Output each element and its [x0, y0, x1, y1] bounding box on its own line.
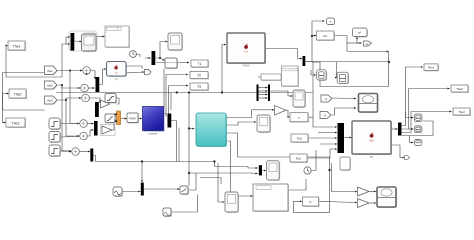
blue subsystem block — [143, 107, 165, 136]
scope 257 — [257, 115, 271, 133]
wire sum2 to mux1 — [89, 87, 95, 89]
svg-text:The3: The3 — [12, 121, 20, 125]
wire sum4 to mux3 — [88, 123, 94, 125]
step source 1 — [49, 118, 61, 130]
wire vertical bus x62 — [62, 85, 71, 152]
mux bar TL — [71, 33, 75, 51]
block The2 right — [451, 85, 469, 93]
from tag the2 — [45, 81, 59, 90]
block Ru2 — [290, 154, 308, 163]
wire x329 down U to const0 — [294, 170, 330, 213]
wire muxTL to scope1 — [75, 40, 82, 43]
wire vertical x164 down — [164, 69, 167, 114]
wire sine to muxBL — [123, 191, 141, 193]
from tag xy1 — [321, 95, 332, 102]
scope B1 — [267, 161, 281, 181]
mux bar 3 — [94, 121, 98, 136]
svg-text:w: w — [330, 21, 332, 24]
wire gain1 to xyB — [370, 191, 376, 193]
block The3 right — [453, 108, 471, 116]
small block 340 — [340, 157, 351, 171]
wire cyan input — [189, 128, 194, 130]
powergui block — [105, 26, 130, 48]
PMSM machine block — [227, 33, 266, 68]
wire mux167 out — [171, 121, 176, 128]
wire left loop to Theta1 — [6, 46, 62, 78]
XY graph top — [359, 94, 379, 114]
cyan subsystem block — [196, 113, 227, 147]
wire PMSM out right — [266, 49, 303, 59]
wire muxR to bigR — [345, 137, 352, 139]
wire mux1 out — [99, 69, 106, 85]
icon block R1 — [414, 114, 422, 122]
display block 261 — [261, 74, 282, 81]
gain triangle 2 boxed — [101, 125, 116, 136]
gain B2 — [358, 199, 370, 208]
saturation block 1 — [105, 94, 117, 104]
block Theta2 display left — [9, 89, 27, 99]
wire y51 long — [347, 51, 389, 53]
wire x189 vertical — [188, 93, 190, 187]
wire left to Theta2 — [3, 94, 9, 111]
wire step1 to sum4 — [60, 123, 79, 125]
scope B2 — [225, 192, 239, 213]
wire to w1 block — [312, 35, 316, 37]
wire demuxR bottom loop — [402, 121, 433, 136]
wire muxT input — [145, 57, 151, 59]
wire demuxB out to scope3 — [271, 91, 293, 96]
mux bar 2 — [95, 102, 99, 117]
demuxB bar right — [268, 85, 270, 102]
constant 0 block — [303, 197, 320, 207]
wire demuxB lines — [259, 87, 268, 89]
sum circle 2 — [81, 84, 89, 92]
wire blk163 out — [172, 195, 198, 213]
mux R thick — [338, 123, 345, 153]
wire from tag the1 to sum1 — [58, 70, 82, 72]
wire vertical bus x66 — [66, 100, 79, 136]
goto w tag — [327, 18, 336, 25]
wire PMSM input — [222, 45, 226, 93]
wire bigR to tag a — [392, 145, 405, 158]
sine source block — [113, 187, 123, 197]
wire run y173 — [189, 172, 258, 175]
wire fB out2 — [126, 72, 144, 73]
wire cyan out1 — [227, 117, 252, 119]
svg-text:the2: the2 — [47, 84, 53, 88]
wire const0 to gain2 — [319, 201, 357, 202]
svg-text:The2: The2 — [456, 87, 463, 91]
goto tag a — [405, 156, 410, 160]
wire muxR in2 — [318, 132, 337, 134]
svg-text:The3: The3 — [458, 110, 465, 114]
wire T1 input — [156, 62, 189, 64]
wire cyan out2 — [227, 122, 256, 125]
wire step3 to sum6 — [60, 150, 71, 153]
wire up to scope2 — [160, 42, 167, 59]
switch block — [180, 186, 189, 195]
wire vertical x168 down — [167, 86, 168, 121]
wire T3 input — [169, 85, 189, 87]
wire run1 continue — [179, 162, 258, 169]
wire into icon3 — [410, 136, 414, 143]
svg-text:p²: p² — [358, 31, 361, 35]
wire muxT to block — [156, 58, 165, 61]
wire branch to muxBL — [141, 162, 143, 183]
wire sum1 to mux1 — [91, 71, 96, 80]
wire Ru2 to muxR — [308, 149, 337, 158]
wire vertical from cluster up — [65, 37, 67, 44]
wire x331 down to gain1 — [332, 163, 357, 192]
from tag xy2 — [320, 112, 331, 119]
scope 1 — [82, 34, 98, 52]
wire vertical x166 down — [166, 75, 167, 117]
rate block 290 — [290, 113, 309, 123]
wire long left y72.5 — [3, 72, 45, 74]
svg-text:The2: The2 — [14, 92, 22, 96]
datastore block 2 — [337, 72, 349, 84]
wire to ds1 — [311, 70, 316, 75]
bottom subsystem block — [253, 184, 289, 212]
wire demuxR to The3 — [402, 112, 452, 133]
sum circle 4 — [80, 120, 88, 128]
wire blockB input — [258, 76, 261, 78]
wire sum6 to mux4 — [80, 151, 90, 153]
scope 2 — [168, 33, 183, 51]
wire left to Theta3 — [3, 110, 6, 123]
wire w1 out — [335, 36, 348, 52]
mux bar 1 — [96, 77, 100, 92]
block w1 — [317, 31, 336, 41]
wire y177 box — [200, 178, 221, 185]
wire scopeB2 feed vertical — [218, 163, 224, 202]
wire switch out — [189, 173, 197, 190]
block p2 — [353, 28, 369, 38]
from tag the1 — [45, 66, 59, 75]
wire sat2 to orange mux — [115, 117, 116, 119]
svg-text:The1: The1 — [428, 65, 435, 69]
svg-text:T3: T3 — [197, 85, 201, 89]
svg-text:T2: T2 — [197, 74, 201, 78]
sum circle 5 — [80, 132, 88, 140]
svg-text:the3: the3 — [47, 99, 53, 103]
wire cyan out1 to triangleG — [252, 110, 274, 118]
wire loop rect — [320, 52, 389, 87]
wire to ds2 — [335, 62, 338, 78]
wire vertical x171 — [170, 93, 172, 111]
svg-text:PMSM: PMSM — [242, 65, 249, 68]
bus block B — [282, 66, 300, 87]
wire into icon1 — [406, 112, 414, 118]
wire sum3 to tri1 — [90, 98, 101, 103]
wire mux302 out up chain — [306, 21, 325, 62]
clock 2 — [304, 167, 312, 175]
wire gain2 to xyB — [370, 202, 376, 204]
block The1 right — [424, 64, 439, 72]
sum circle 6 — [72, 148, 80, 156]
big right machine block — [352, 121, 392, 159]
wire muxBL out — [144, 188, 180, 190]
block Ru1 — [291, 134, 309, 143]
wire muxTL input — [66, 36, 70, 38]
wire cyan out3 — [227, 133, 330, 170]
wire tag to xy1 — [332, 97, 357, 100]
step source 2 — [49, 132, 61, 144]
v1 goto pentagon — [364, 41, 372, 46]
wire bigR to demuxR — [392, 128, 398, 130]
block 163 — [163, 208, 172, 217]
wire orange to pwm — [121, 118, 127, 120]
wire long y92.5 — [56, 92, 313, 94]
wire muxB to scopeB1 — [263, 170, 266, 172]
sum circle 3 — [82, 94, 90, 102]
svg-text:w1: w1 — [323, 34, 327, 38]
wire triangleG out to rate block — [287, 110, 290, 117]
wire bar4 out long run — [93, 128, 179, 162]
wire powergui input — [97, 36, 105, 38]
gain triangle 1 — [101, 100, 110, 108]
mux302 — [303, 56, 306, 66]
goto tag small — [145, 70, 152, 75]
orange mux — [115, 111, 121, 125]
wire from tag the3 — [58, 98, 81, 100]
icon block R3 — [414, 140, 422, 146]
wire demuxR up to The1 — [402, 67, 423, 126]
wire muxR in3 — [320, 143, 337, 145]
wire down from mux area x177 — [176, 128, 178, 162]
block T2 — [190, 72, 209, 80]
saturation block 2 — [105, 114, 116, 124]
pwm block — [127, 113, 139, 124]
fB block with red icon — [107, 62, 128, 82]
svg-text:the1: the1 — [47, 69, 53, 73]
clock 1 — [130, 51, 137, 58]
demux R — [398, 123, 402, 136]
svg-text:T1: T1 — [198, 62, 202, 66]
wire demuxR to The2 — [402, 89, 450, 130]
wire into icon2 — [409, 128, 414, 130]
wire rate block out to muxR — [309, 117, 337, 127]
mux after blue — [168, 114, 172, 128]
mux B — [259, 165, 262, 175]
wire clock1 to mux — [137, 55, 141, 58]
wire sat1 to tri chain — [116, 98, 119, 104]
mux bar T — [152, 51, 156, 65]
wire to v1 tag — [347, 42, 362, 44]
wire step2 to sum5 — [60, 136, 79, 139]
block Theta3 display left — [6, 118, 26, 128]
mux BL — [141, 183, 144, 196]
XY graph bottom — [377, 187, 397, 208]
step source 3 — [49, 145, 61, 157]
to-workspace block — [165, 58, 178, 69]
svg-text:PM: PM — [370, 156, 374, 159]
wire T2 input — [166, 74, 188, 76]
scope 3 — [293, 90, 306, 108]
block Theta1 display left — [8, 41, 26, 51]
svg-text:Ru2: Ru2 — [296, 157, 302, 161]
svg-text:f(u): f(u) — [115, 78, 119, 81]
svg-text:The1: The1 — [13, 44, 21, 48]
wire sum5 to mux3 — [88, 130, 94, 136]
wire x313 vertical — [312, 62, 314, 118]
wire muxTL input2 — [66, 43, 70, 45]
wire vertical bus x70 — [70, 71, 79, 124]
mux bar 4 — [90, 149, 93, 162]
wire mux302 long right — [306, 61, 389, 63]
wire clock2 stub — [311, 150, 316, 171]
frame around TL mux+scope — [69, 31, 97, 51]
sum circle 1 — [83, 67, 91, 75]
wire loop top — [312, 61, 320, 63]
block T3 — [190, 83, 209, 91]
wire Ru1 to muxR — [309, 137, 337, 139]
svg-text:Tm: Tm — [244, 51, 247, 54]
gain triangle G — [275, 106, 287, 116]
datastore block 1 — [317, 70, 327, 81]
wire pwm to blue block — [138, 118, 142, 120]
wire cyan out4 — [227, 141, 253, 196]
demuxB bar left — [257, 85, 259, 102]
svg-text:Mot: Mot — [370, 140, 374, 143]
svg-text:PWM: PWM — [129, 116, 135, 120]
block T1 — [191, 60, 209, 68]
wire tri2 to orange mux — [112, 121, 116, 130]
wire to p2 block — [356, 37, 358, 44]
wire fB out to clock area — [126, 66, 142, 69]
svg-text:inverter: inverter — [149, 131, 158, 135]
from tag the3 — [45, 96, 59, 105]
gain B1 — [358, 187, 370, 196]
svg-text:Ru1: Ru1 — [297, 137, 303, 141]
wire bottom block out — [289, 179, 307, 190]
wire tag to xy2 — [332, 108, 357, 115]
wire long left horizontal — [3, 109, 46, 111]
icon block R2 — [414, 126, 422, 133]
wire from tag the2 — [58, 85, 80, 88]
